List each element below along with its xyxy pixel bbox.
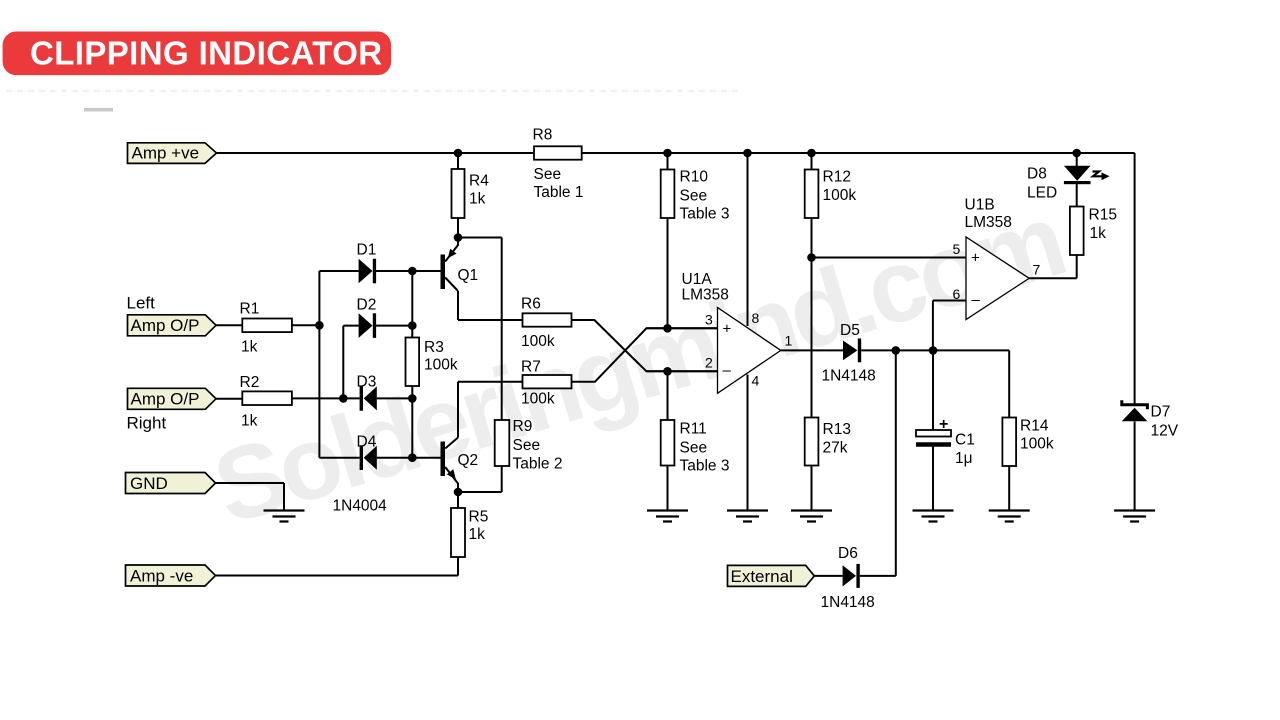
- svg-text:+: +: [939, 416, 948, 433]
- wire: R1 leads: [216, 324, 319, 326]
- svg-text:Amp +ve: Amp +ve: [132, 144, 200, 163]
- resistor R6: [521, 296, 572, 351]
- wire: Q1 base wire: [412, 270, 440, 272]
- ground (U1A pin 4): [727, 511, 768, 522]
- wire: pin 6 feedback: [933, 301, 966, 351]
- wire: pin 3 row: [646, 327, 717, 329]
- svg-text:1k: 1k: [241, 413, 258, 430]
- svg-text:7: 7: [1033, 262, 1041, 278]
- wire: U1A pin 4 ground stem: [747, 375, 749, 511]
- svg-text:Table 3: Table 3: [680, 206, 730, 223]
- diode D5: [822, 322, 876, 385]
- wire: R7 row from Q2 collector: [458, 381, 523, 383]
- svg-text:R6: R6: [521, 296, 541, 313]
- wire: Q1 emitter node to R9 top (long vertical): [458, 238, 502, 421]
- svg-text:CLIPPING INDICATOR: CLIPPING INDICATOR: [30, 35, 383, 72]
- svg-text:100k: 100k: [1020, 436, 1054, 453]
- wire: Q2 collector vertical: [457, 382, 459, 438]
- svg-text:GND: GND: [130, 474, 168, 493]
- wire: R12/R13 divider column: [811, 153, 813, 511]
- node GND: [126, 473, 216, 494]
- resistor R2: [240, 374, 292, 430]
- resistor R3: [406, 338, 458, 387]
- node External: [728, 565, 815, 586]
- wire: pin 1 / D5 output row: [781, 349, 1009, 351]
- svg-text:4: 4: [752, 373, 760, 389]
- title banner CLIPPING INDICATOR: [3, 32, 392, 76]
- resistor R10: [661, 169, 730, 223]
- svg-text:C1: C1: [955, 432, 975, 449]
- svg-text:8: 8: [752, 310, 760, 326]
- resistor R12: [805, 169, 857, 219]
- svg-text:R12: R12: [823, 169, 851, 186]
- svg-text:1N4148: 1N4148: [821, 594, 875, 611]
- ground (GND input): [264, 511, 305, 522]
- svg-text:+: +: [971, 250, 980, 267]
- svg-text:LM358: LM358: [682, 287, 729, 304]
- svg-text:R14: R14: [1020, 418, 1049, 435]
- transistor Q1: [441, 238, 479, 292]
- wire: GND lead: [216, 483, 285, 511]
- svg-text:100k: 100k: [521, 333, 555, 350]
- resistor R7: [521, 359, 572, 408]
- diode D3: [357, 374, 377, 411]
- svg-text:3: 3: [705, 312, 713, 328]
- wire: D8 to R15 stem: [1076, 184, 1078, 207]
- svg-text:1k: 1k: [1090, 225, 1107, 242]
- svg-text:R2: R2: [240, 374, 260, 391]
- node Amp O/P Right: [127, 388, 217, 432]
- svg-text:D2: D2: [357, 297, 377, 314]
- wire: D4 row: [319, 457, 412, 459]
- svg-text:See: See: [534, 166, 562, 183]
- svg-text:R13: R13: [823, 421, 851, 438]
- svg-text:1k: 1k: [241, 339, 258, 356]
- wire: R10 stems: [667, 153, 669, 328]
- wire: right rail down to D7: [1134, 153, 1136, 511]
- svg-text:D8: D8: [1027, 166, 1047, 183]
- svg-text:R10: R10: [680, 169, 709, 186]
- op-amp U1B: [953, 197, 1041, 320]
- capacitor C1: [916, 416, 975, 467]
- svg-text:Table 1: Table 1: [534, 184, 584, 201]
- svg-text:R1: R1: [240, 301, 260, 318]
- svg-text:R7: R7: [521, 359, 541, 376]
- svg-text:1k: 1k: [469, 526, 486, 543]
- wire: Q2 base wire: [412, 457, 440, 459]
- wire: Q2 emitter node to R9 bottom: [458, 466, 502, 492]
- svg-text:See: See: [680, 440, 708, 457]
- watermark Solderingmind.com: [202, 182, 1074, 545]
- wire: pin 7 to R15: [1029, 255, 1077, 278]
- svg-text:R15: R15: [1089, 207, 1117, 224]
- svg-text:Amp O/P: Amp O/P: [131, 390, 200, 409]
- node Amp -ve: [126, 565, 216, 586]
- diode D1: [357, 242, 377, 284]
- svg-text:R5: R5: [469, 509, 489, 526]
- op-amp U1A: [682, 271, 793, 393]
- svg-text:100k: 100k: [823, 187, 857, 204]
- svg-text:2: 2: [705, 355, 713, 371]
- transistor Q2: [441, 438, 479, 493]
- svg-text:D7: D7: [1151, 404, 1171, 421]
- svg-text:D5: D5: [840, 322, 860, 339]
- wire: pin 5 row: [812, 257, 967, 259]
- svg-text:R11: R11: [680, 421, 707, 438]
- label 1N4004 for D1-D4: [333, 498, 388, 515]
- svg-text:1k: 1k: [469, 191, 486, 208]
- wire: External lead: [814, 575, 842, 577]
- resistor R8: [533, 127, 584, 202]
- diode D4: [357, 434, 377, 471]
- wire: R14 stems: [1008, 350, 1010, 510]
- wire: R2 leads: [216, 397, 343, 399]
- svg-text:1N4004: 1N4004: [333, 498, 388, 515]
- svg-text:27k: 27k: [823, 440, 848, 457]
- zener diode D7: [1122, 400, 1179, 439]
- wire: U1A pin 8 supply stem: [747, 153, 749, 326]
- svg-text:D4: D4: [357, 434, 377, 451]
- wire: R11 stems: [667, 371, 669, 510]
- wire: C1 stems: [932, 350, 934, 510]
- wire: R7 out crossover to pin3 row: [572, 328, 718, 381]
- wire: R5 stems: [457, 492, 459, 576]
- svg-text:Amp O/P: Amp O/P: [131, 316, 200, 335]
- svg-text:D3: D3: [357, 374, 377, 391]
- svg-text:1: 1: [785, 333, 793, 349]
- ground (R11): [647, 511, 688, 522]
- node Amp +ve: [128, 143, 217, 164]
- svg-text:D6: D6: [838, 545, 858, 562]
- svg-text:R8: R8: [533, 127, 553, 144]
- wire: Amp -ve rail: [216, 575, 459, 577]
- ground (R14): [989, 511, 1030, 522]
- resistor R14: [1002, 418, 1053, 467]
- wire: R6 out crossover to pin2 row: [572, 320, 718, 371]
- resistor R13: [805, 418, 851, 466]
- svg-text:Table 2: Table 2: [513, 456, 563, 473]
- svg-text:Q1: Q1: [458, 267, 479, 284]
- svg-text:Left: Left: [127, 294, 156, 313]
- ghost dash artifact: [84, 108, 113, 112]
- svg-text:+: +: [723, 321, 732, 338]
- svg-text:Right: Right: [127, 414, 167, 433]
- svg-text:100k: 100k: [521, 391, 555, 408]
- resistor R4: [452, 169, 490, 218]
- wire: D1 row: [319, 270, 412, 272]
- svg-text:R9: R9: [513, 418, 533, 435]
- diode D6: [821, 545, 875, 611]
- svg-text:Table 3: Table 3: [680, 458, 730, 475]
- svg-text:See: See: [513, 437, 541, 454]
- wire: left input vertical (D1 to D4): [318, 271, 320, 458]
- resistor R5: [451, 508, 488, 557]
- svg-text:Amp -ve: Amp -ve: [130, 567, 193, 586]
- ground (D7): [1114, 511, 1155, 522]
- resistor R1: [240, 301, 292, 356]
- ghost underline artifact row: [6, 90, 742, 93]
- node Amp O/P Left: [127, 294, 217, 336]
- wire: D6 riser to output row: [860, 350, 896, 576]
- svg-text:U1A: U1A: [682, 271, 713, 288]
- svg-text:External: External: [731, 567, 793, 586]
- svg-text:100k: 100k: [424, 357, 458, 374]
- ground (R13): [791, 511, 832, 522]
- svg-text:U1B: U1B: [965, 197, 995, 214]
- wire: R4 stems: [457, 153, 459, 238]
- LED D8: [1027, 166, 1110, 202]
- svg-text:12V: 12V: [1151, 423, 1179, 440]
- resistor R15: [1070, 207, 1117, 256]
- wire: ladder vertical with R3 stems: [411, 271, 413, 458]
- wire: Amp +ve top rail: [217, 152, 1135, 154]
- svg-text:5: 5: [953, 241, 961, 257]
- wire: pin 2 row: [646, 370, 717, 372]
- wire: Q1 collector to R6 row: [458, 291, 523, 320]
- svg-text:–: –: [723, 362, 732, 379]
- svg-text:LM358: LM358: [965, 214, 1012, 231]
- wire: D3 row: [343, 397, 412, 399]
- svg-text:1μ: 1μ: [955, 450, 973, 467]
- svg-text:See: See: [680, 188, 708, 205]
- svg-text:R3: R3: [424, 339, 444, 356]
- resistor R11: [661, 420, 730, 475]
- wire: D2 row and drop to D3 row: [343, 326, 412, 399]
- svg-text:1N4148: 1N4148: [822, 368, 876, 385]
- svg-text:Q2: Q2: [458, 452, 479, 469]
- resistor R9: [495, 418, 563, 473]
- svg-text:–: –: [972, 292, 981, 309]
- diode D2: [357, 297, 377, 338]
- ground (C1): [913, 511, 954, 522]
- svg-text:R4: R4: [469, 173, 489, 190]
- svg-text:6: 6: [953, 286, 961, 302]
- svg-text:D1: D1: [357, 242, 377, 259]
- wire: D8 anode stem: [1076, 153, 1078, 166]
- svg-text:LED: LED: [1027, 185, 1057, 202]
